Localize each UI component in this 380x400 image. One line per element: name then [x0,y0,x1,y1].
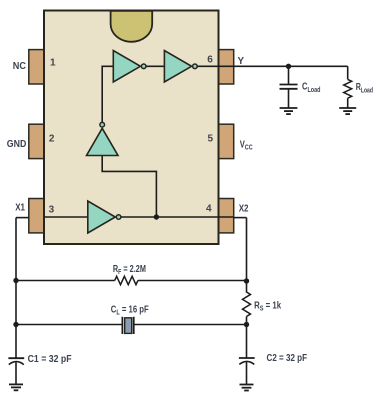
wire pin3 to inverter D input [44,216,88,218]
notch [111,11,153,42]
svg-text:CL = 16 pF: CL = 16 pF [111,304,149,316]
svg-text:Y: Y [238,56,245,67]
ground (C_Load) [280,108,298,114]
ground (C2) [240,385,254,391]
inverter U1b [164,51,197,83]
wire inverter C output to inverter A input [102,66,113,122]
inverter U1c [87,122,119,155]
wire R_F rail left segment [16,280,115,282]
resistor R_F [115,276,138,284]
wire R_Load to ground [347,98,349,108]
wire crystal rail right segment [134,324,247,326]
wire crystal rail left segment [16,324,122,326]
svg-text:RS = 1k: RS = 1k [254,300,281,312]
svg-text:C1 = 32 pF: C1 = 32 pF [28,354,72,365]
wire left rail vertical [15,218,17,359]
wire inverter D output to pin 4 [121,216,234,218]
capacitor C1 [8,358,24,364]
node crystal right junction [244,322,249,327]
wire inverter B output to pin 6 [197,65,233,67]
wire R_S to C2 [246,317,248,359]
node RF right junction [244,278,249,283]
junction node feedback [154,214,159,219]
capacitor C_Load [280,85,298,89]
ground (C1) [9,384,23,390]
svg-text:C2 = 32 pF: C2 = 32 pF [267,353,308,364]
resistor R_S [243,292,251,317]
svg-text:3: 3 [49,204,55,215]
svg-text:NC: NC [13,61,26,72]
resistor R_Load [344,79,352,98]
wire X1 pin3 to left rail [16,217,29,219]
pin 1 [29,50,44,84]
pin 2 [29,124,44,158]
wire right rail to R_S [246,218,248,293]
crystal C_L [122,317,133,334]
wire Y to R_Load [347,66,349,79]
svg-text:VCC: VCC [240,139,253,151]
pin 6 [218,50,233,84]
pin 3 [29,199,44,233]
inverter U1d [88,201,121,233]
svg-text:6: 6 [207,55,213,66]
svg-text:2: 2 [49,134,55,145]
IC body U1 [44,11,219,245]
svg-text:4: 4 [206,204,212,215]
svg-text:CLoad: CLoad [302,81,321,94]
svg-text:RF = 2.2M: RF = 2.2M [113,264,146,276]
wire C_Load to ground [288,89,290,108]
svg-text:RLoad: RLoad [356,82,373,95]
svg-text:GND: GND [7,139,27,150]
node RF left junction [13,278,18,283]
node Y junction [286,64,291,69]
node crystal left junction [13,322,18,327]
pin 5 [218,124,233,158]
wire inverter A to inverter B [146,65,164,67]
capacitor C2 [239,358,255,364]
wire C2 to ground [246,362,248,384]
inverter U1a [113,51,146,83]
wire X2 pin4 to right rail [234,217,247,219]
wire R_F rail right segment [138,280,247,282]
svg-text:X1: X1 [15,202,25,213]
pin 4 [218,199,233,233]
ground (R_Load) [339,108,356,114]
svg-text:1: 1 [50,58,56,69]
wire Y output [234,65,348,67]
wire junction up [102,156,156,218]
wire C1 to ground [15,362,17,384]
wire junction to C_Load [288,66,290,84]
svg-text:X2: X2 [239,204,249,215]
svg-text:5: 5 [208,134,214,145]
